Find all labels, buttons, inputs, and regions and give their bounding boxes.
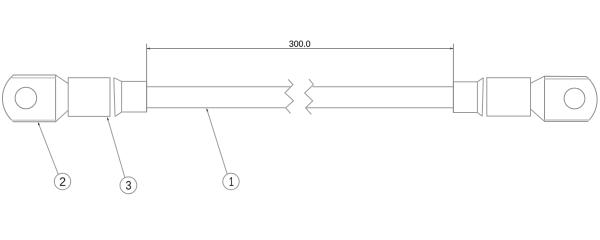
dimension: value label 300.0 (289, 41, 310, 47)
wire: left insulation top edge (147, 86, 292, 88)
ring terminal right: neck transition bottom diagonal (531, 109, 545, 121)
wire: right insulation bottom edge (306, 107, 454, 109)
balloon 1 leader line (207, 109, 228, 174)
ring terminal left: barrel body (68, 78, 110, 117)
balloon 2 circle (54, 173, 70, 189)
ring terminal right: barrel body (487, 78, 531, 116)
ring terminal right: crimp taper top (477, 78, 483, 82)
ring terminal left: crimp taper bottom (115, 112, 122, 116)
dimension: left extension line (146, 44, 148, 112)
wire: right insulation top edge (313, 86, 454, 88)
balloon 1 circle (223, 173, 239, 189)
ring terminal left: neck transition bottom diagonal (56, 110, 69, 122)
ring terminal right: ring outline (545, 76, 598, 121)
ring terminal right: crimp shoulder line (482, 78, 483, 116)
ring terminal right: stud hole (564, 88, 585, 109)
dimension: right extension line (452, 44, 454, 113)
wire: left insulation bottom edge (147, 107, 286, 109)
balloon 3 leader line (108, 118, 125, 178)
ring terminal left: top inset line (12, 77, 56, 79)
ring terminal left: bottom inset line (12, 119, 56, 121)
balloon 3 circle (120, 177, 137, 194)
balloon 3 leader arrowhead (107, 117, 109, 120)
ring terminal right: crimp taper bottom (477, 113, 482, 117)
ring terminal left: crimp shoulder line (114, 78, 115, 117)
ring terminal left: ring outline (2, 75, 55, 122)
ring terminal right: top inset line (545, 78, 589, 80)
balloon 1 leader arrowhead (207, 108, 209, 111)
balloon 1 number (230, 177, 234, 186)
ring terminal left: stud hole (15, 87, 37, 109)
ring terminal left: crimp taper top (114, 78, 122, 82)
balloon 2 number (60, 177, 65, 186)
dimension: left arrowhead (147, 48, 150, 50)
ring terminal right: neck transition top diagonal (531, 76, 545, 83)
ring terminal left: neck transition top diagonal (56, 75, 69, 84)
dimension: right arrowhead (450, 48, 453, 50)
balloon 3 number (126, 181, 131, 190)
wire: break line left zigzag (285, 79, 294, 113)
ring terminal right: wire crimp sleeve (453, 82, 477, 113)
ring terminal left: wire crimp sleeve (122, 81, 147, 112)
ring terminal right: bottom inset line (545, 119, 590, 121)
balloon 2 leader arrowhead (38, 122, 40, 125)
dimension: dimension line (147, 48, 454, 50)
balloon 2 leader line (38, 123, 58, 174)
wire: break line right zigzag (305, 79, 314, 114)
